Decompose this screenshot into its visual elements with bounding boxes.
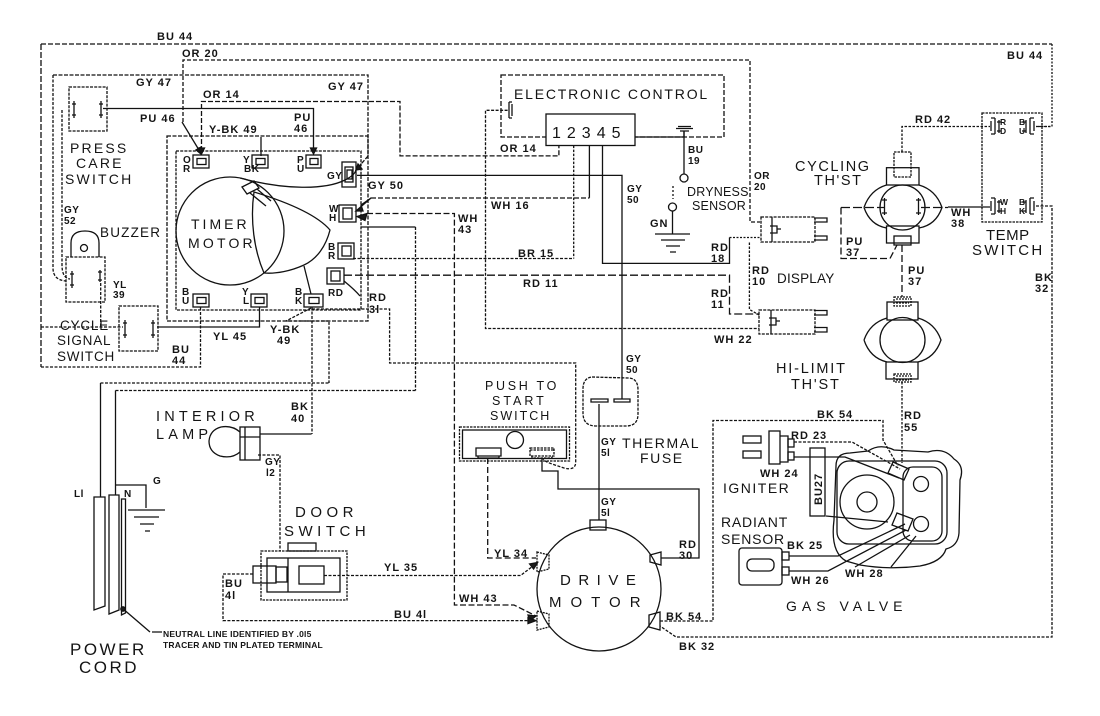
igniter body bar [769,431,780,464]
wire neutral rail upper [101,382,330,384]
svg-text:YL 34: YL 34 [494,548,528,560]
wire GY 12 [258,455,280,551]
svg-text:3l: 3l [369,304,380,316]
timer terminal Y-BK [252,155,268,168]
display connector bottom body [759,310,815,334]
cycling thermostat bottom block [887,226,920,243]
svg-text:CARE: CARE [76,155,124,171]
svg-text:SWITCH: SWITCH [490,409,551,423]
svg-text:11: 11 [711,299,725,311]
cycling thermostat left contact [882,198,887,215]
arrow pointer tip [196,147,201,154]
timer terminal BK [304,294,323,307]
svg-text:DRYNESS: DRYNESS [687,185,749,199]
svg-text:SWITCH: SWITCH [284,523,370,540]
svg-text:BU: BU [225,578,243,590]
svg-text:SIGNAL: SIGNAL [57,333,111,348]
igniter nub lower [788,452,794,460]
press care switch box [69,87,107,131]
svg-text:DISPLAY: DISPLAY [777,271,834,286]
buzzer dome [71,231,99,257]
timer terminal RD [327,268,344,284]
svg-text:10: 10 [752,276,766,288]
interior lamp base [240,427,260,460]
timer terminal BU [193,294,209,307]
timer motor circle [176,177,284,285]
buzzer body [66,257,105,302]
wire WH 16 [371,197,589,199]
power cord leader dot [121,607,125,611]
wire RD 42 [902,127,990,153]
svg-text:BK 32: BK 32 [679,641,715,653]
wire GY 51 [598,404,600,520]
svg-text:START: START [492,394,547,408]
svg-text:RD 11: RD 11 [523,278,559,290]
svg-text:K: K [295,296,303,307]
wire BR 15 [353,258,574,260]
gas valve upper connector lug [888,462,909,480]
wire N drop [115,391,117,496]
svg-text:52: 52 [64,216,76,227]
power cord bar N [109,495,119,614]
svg-text:WH 16: WH 16 [491,200,530,212]
temp switch pin WH [991,198,1001,214]
svg-text:12345: 12345 [552,125,627,142]
timer terminal OR [193,155,209,168]
svg-text:SWITCH: SWITCH [57,349,115,364]
wire RD 23 [794,442,900,469]
display connector top inner [770,217,781,242]
svg-text:46: 46 [294,123,308,135]
svg-text:BK 54: BK 54 [666,611,702,623]
svg-text:55: 55 [904,422,918,434]
svg-text:CYCLE: CYCLE [60,318,109,333]
radiant sensor slot [747,559,774,571]
svg-text:OR 14: OR 14 [500,143,537,155]
gas valve right plate [903,467,942,541]
svg-text:H: H [1000,206,1006,216]
svg-text:WH 26: WH 26 [791,575,830,587]
gas valve outer blob [833,447,961,568]
temp switch pin BU [1022,118,1034,134]
svg-text:YL 45: YL 45 [213,331,247,343]
wire BU 44 bottom [41,307,201,367]
wire G branch [116,485,147,508]
svg-text:TRACER AND TIN PLATED TERMINAL: TRACER AND TIN PLATED TERMINAL [163,640,323,650]
cycling thermostat bottom connector [894,236,911,245]
hi-limit bottom connector [894,374,911,382]
push to start right contact [530,448,554,458]
buzzer right contact [98,270,102,282]
svg-text:BR 15: BR 15 [518,248,554,260]
temp switch box [982,113,1042,222]
cycling thermostat top block [887,168,920,185]
push to start left contact [476,448,501,458]
wire push start right terminal to RD30 rail [542,458,699,558]
electronic control left pin [509,102,512,118]
svg-text:U: U [182,296,190,307]
svg-text:PUSH TO: PUSH TO [485,379,559,393]
svg-text:GY 47: GY 47 [136,77,172,89]
svg-text:L: L [243,296,250,307]
display connector top prong lower [814,236,827,240]
dryness sensor stem [683,131,685,174]
wire left border [40,44,42,367]
arrow WH 16 into WH terminal [356,198,371,211]
buzzer dome circle [81,245,88,252]
wire BU 44 top border [41,43,1052,45]
wire from press care left terminal down [62,110,70,279]
svg-text:DOOR: DOOR [295,504,358,521]
display connector top body [761,217,815,242]
svg-text:44: 44 [172,355,186,367]
wire PU 37 down to hi-limit [901,245,903,297]
wire L1 drop [100,383,102,497]
igniter prong upper [743,436,761,443]
gas valve plate hole upper [914,477,929,492]
gas valve coil circle [840,475,894,529]
wire pin2 WH16 riser [573,146,575,259]
svg-text:DRIVE: DRIVE [560,572,643,589]
arrow GY 47 into timer GY terminal [356,164,362,170]
svg-text:BK 54: BK 54 [817,409,853,421]
drive motor terminal left lower [537,611,549,630]
timer terminal YL [251,294,267,307]
svg-text:5l: 5l [601,508,610,519]
door switch inner box [267,558,340,592]
svg-text:WH 43: WH 43 [459,593,498,605]
svg-text:GY 47: GY 47 [328,81,364,93]
wire WH 24 [794,457,899,478]
pointer PU 46 to OR terminal [182,122,199,150]
wire cycle switch left to border [41,326,123,328]
wire BU 41 [223,574,533,621]
cycling thermostat right contact [916,198,921,215]
svg-text:GAS VALVE: GAS VALVE [786,598,908,614]
svg-text:SWITCH: SWITCH [65,171,133,187]
svg-text:50: 50 [626,365,638,376]
hi-limit top block [887,302,918,320]
wire WH 38 [948,206,990,208]
igniter terminal bar [780,436,788,462]
svg-text:H: H [329,213,337,224]
wire pin3 riser [588,146,590,198]
callout box BU27 [810,448,825,516]
wire PU 46 from press care right terminal [103,109,314,151]
electronic control 12345 box [546,114,635,146]
dryness sensor gap dash [672,186,674,199]
svg-text:BU 4l: BU 4l [394,609,427,621]
temp switch pin BK [1022,198,1034,214]
wire BK 40 from BK terminal down [311,307,313,434]
svg-text:18: 18 [711,253,725,265]
svg-text:GY: GY [626,354,641,365]
svg-text:49: 49 [277,335,291,347]
svg-text:RD: RD [904,410,922,422]
svg-text:BU 44: BU 44 [157,31,193,43]
radiant sensor nub lower [782,567,789,575]
wire RD 55 [901,382,903,463]
svg-text:PU 46: PU 46 [140,113,176,125]
cycling thermostat lens body [864,185,942,228]
svg-text:OR 20: OR 20 [182,48,219,60]
wire WH 43 [367,214,536,617]
wire WH 28 [855,535,916,567]
wire pin4 RD18 [603,146,730,264]
dryness sensor contact circle lower [669,203,677,211]
timer cam wiper to GY terminal [240,170,356,187]
door switch top bump [288,543,316,551]
svg-text:RD: RD [369,292,387,304]
svg-text:WH 28: WH 28 [845,568,884,580]
svg-text:TIMER: TIMER [191,216,250,232]
timer terminal PU [306,155,321,168]
svg-text:K: K [1019,206,1026,216]
pointer RD terminal to RD31 label [344,281,360,296]
wire WH 22 [486,110,760,328]
timer terminal WH [339,205,356,222]
svg-text:19: 19 [688,156,700,167]
arrow BU41 at motor [528,618,536,624]
timer inner box [176,151,361,310]
radiant sensor nub upper [782,552,789,560]
svg-text:RD 23: RD 23 [791,430,827,442]
wire centerline dashed [841,207,948,209]
wire YL 34 [488,458,536,558]
wire WH 26 [789,530,906,571]
display connector bottom prong upper [814,311,827,316]
svg-text:SENSOR: SENSOR [721,531,785,547]
svg-text:D: D [1000,126,1006,136]
svg-text:PRESS: PRESS [70,140,128,156]
wire YL 39 buzzer to cycle switch [100,283,102,327]
wire RD 10 [749,243,759,316]
svg-text:32: 32 [1035,283,1049,295]
svg-text:GY: GY [601,437,616,448]
timer outer box [167,136,368,321]
svg-text:38: 38 [951,218,965,230]
hi-limit bottom block [886,362,918,379]
push to start switch outer box [460,427,570,461]
svg-text:RADIANT: RADIANT [721,514,788,530]
wire BK 25 [789,524,905,556]
wire BK 32 right border [660,206,1052,637]
thermal fuse body [583,377,638,426]
arrow WH 43 at WH terminal [357,214,367,221]
gas valve plate hole lower [914,517,929,532]
cycling thermostat circle [880,185,925,230]
svg-text:SENSOR: SENSOR [692,199,746,213]
svg-text:FUSE: FUSE [640,450,684,466]
svg-text:R: R [183,164,191,175]
svg-text:Ll: Ll [74,489,84,500]
svg-text:G: G [153,476,161,487]
wire RD 31 [312,309,576,469]
svg-text:TH'ST: TH'ST [791,377,841,393]
svg-text:INTERIOR: INTERIOR [156,409,259,425]
svg-text:BUZZER: BUZZER [100,225,161,240]
door switch inner right contact [299,566,324,584]
wire GY 47 [53,75,368,170]
gas valve main body [837,461,947,544]
svg-text:BK 25: BK 25 [787,540,823,552]
svg-text:GY: GY [601,497,616,508]
svg-text:l2: l2 [266,468,275,479]
thermal fuse left terminal [591,399,608,402]
display connector top prong upper [814,218,827,222]
display connector bottom inner [769,310,780,334]
gas valve lower connector lug [892,513,913,531]
hi-limit lens body [864,318,941,362]
svg-text:R: R [328,251,336,262]
dryness sensor contact circle upper [680,174,688,182]
svg-text:MOTOR: MOTOR [549,594,650,611]
ground symbol power cord [128,510,165,531]
buzzer left contact [70,271,74,288]
wire line rail lower [116,390,416,392]
svg-text:NEUTRAL LINE IDENTIFIED BY .0l: NEUTRAL LINE IDENTIFIED BY .0l5 [163,629,312,639]
timer terminal BR [338,243,354,259]
wire BK 54 loop [660,421,898,622]
igniter nub upper [788,439,794,447]
svg-text:20: 20 [754,182,766,193]
wire YL 45 [157,307,260,327]
svg-text:GY: GY [64,205,79,216]
cycle signal switch left contact [123,320,127,338]
timer terminal GY [342,162,356,187]
radiant sensor box [739,548,782,585]
svg-text:BU 44: BU 44 [1007,50,1043,62]
arrow YL35 at motor [530,563,538,570]
press care switch left contact [72,101,76,118]
push to start switch inner box [463,430,567,459]
svg-text:ELECTRONIC CONTROL: ELECTRONIC CONTROL [514,86,709,102]
svg-text:GY 50: GY 50 [368,180,404,192]
power cord leader line [122,608,162,632]
svg-text:POWER: POWER [70,640,147,659]
door switch inner divider [287,558,289,592]
arrow WH43 at motor [528,615,536,621]
svg-text:GY: GY [265,457,280,468]
svg-text:SWITCH: SWITCH [972,242,1044,259]
push to start button circle [507,432,524,449]
svg-text:RD 42: RD 42 [915,114,951,126]
svg-text:GN: GN [650,218,669,230]
svg-text:40: 40 [291,413,305,425]
press care switch right contact [99,101,103,118]
svg-text:4l: 4l [225,590,236,602]
cycle signal switch right contact [151,320,155,338]
svg-text:IGNITER: IGNITER [723,480,790,496]
svg-text:5l: 5l [601,448,610,459]
cycling thermostat top connector [894,152,911,177]
wire stub timer to BR15 drop [361,226,416,228]
svg-text:TH'ST: TH'ST [814,173,863,189]
svg-text:THERMAL: THERMAL [622,435,700,451]
wire Y-BK 49 from YBK terminal to timer box top [260,137,262,156]
wire BU44 into temp switch [1036,126,1052,128]
timer cam shaft [250,189,271,206]
svg-text:U: U [1019,126,1025,136]
timer cam follower mark [242,181,259,194]
electronic control box [501,75,724,137]
wire YL 35 [324,563,538,576]
arrow PU 46 into timer PU terminal [311,148,317,154]
wire BR15 drop vertical [415,227,417,391]
svg-text:37: 37 [908,276,922,288]
cycle signal switch box [119,306,158,351]
drive motor terminal right BK54 [649,612,660,630]
thermal fuse right terminal [614,399,630,402]
svg-text:GY: GY [627,184,642,195]
temp switch pin RD [991,118,1001,134]
svg-text:GY: GY [327,171,342,182]
svg-text:LAMP: LAMP [156,427,212,443]
timer cam pear body [252,192,330,273]
svg-text:BK: BK [244,164,260,175]
svg-text:30: 30 [679,550,693,562]
hi-limit circle [880,318,925,363]
wire Y-BK 49 from BK terminal [286,308,329,383]
svg-text:Y-BK 49: Y-BK 49 [209,124,258,136]
display connector bottom prong lower [814,328,827,333]
svg-text:MOTOR: MOTOR [188,235,256,251]
svg-text:U: U [297,164,305,175]
svg-text:YL 35: YL 35 [384,562,418,574]
wire RD 11 [344,275,759,314]
wire RD18 tail into connector [730,237,761,239]
gas valve coil inner circle [857,492,877,512]
svg-text:CORD: CORD [79,658,139,677]
svg-text:37: 37 [846,247,860,259]
svg-text:WH 22: WH 22 [714,334,753,346]
drive motor circle [537,527,661,651]
wire PU 37 left [841,208,897,259]
svg-text:39: 39 [113,290,125,301]
power cord bar extra [122,499,126,615]
interior lamp base lines [240,427,260,460]
wire GY 52 drop to buzzer [53,75,66,281]
arrow OR 14 into timer OR terminal [199,148,205,154]
interior lamp bulb [209,427,240,457]
wire BU27 to valve [826,516,888,522]
door switch outer box [261,551,347,600]
svg-text:WH 24: WH 24 [760,468,799,480]
timer cam link to BK terminal [304,266,311,294]
wire OR 20 [183,60,760,222]
drive motor terminal right RD30 [650,552,661,565]
power cord bar L1 [94,497,105,610]
ground GN symbol [655,234,690,252]
door switch left terminal big [253,566,276,583]
svg-text:RD: RD [328,288,343,299]
svg-text:HI-LIMIT: HI-LIMIT [776,361,847,377]
wire pin5 to BU19 bar [635,131,684,137]
svg-text:BU: BU [688,145,703,156]
svg-text:43: 43 [458,224,472,236]
drive motor terminal top [590,520,606,530]
drive motor terminal left upper [537,552,549,572]
svg-text:OR: OR [754,171,770,182]
wire OR 14 [202,102,559,156]
svg-text:50: 50 [627,195,639,206]
door switch left terminal small [276,567,287,582]
svg-text:BU27: BU27 [813,473,825,505]
wire lamp to BK40 [260,433,312,435]
dryness sensor top bar [676,127,693,132]
wire to ground GN [672,211,674,234]
wire right border upper (BU 44) [1036,44,1052,127]
